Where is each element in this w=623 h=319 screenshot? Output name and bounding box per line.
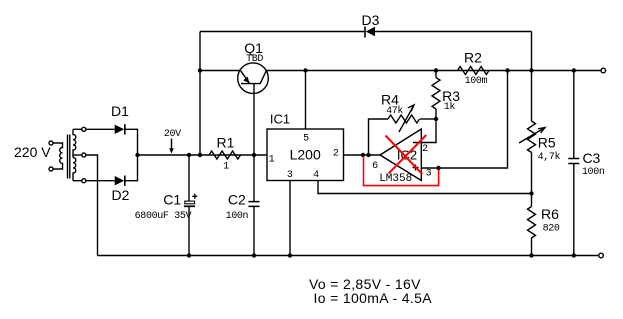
svg-text:820: 820 bbox=[543, 223, 560, 234]
svg-text:LM358: LM358 bbox=[379, 173, 412, 185]
transformer T1 core bbox=[68, 135, 70, 179]
svg-text:100n: 100n bbox=[226, 211, 249, 222]
svg-text:1: 1 bbox=[223, 162, 229, 173]
diode D1 bbox=[111, 103, 129, 135]
svg-text:C2: C2 bbox=[228, 192, 246, 208]
svg-text:1k: 1k bbox=[444, 101, 456, 113]
red annotation box around LM358 bbox=[364, 156, 439, 186]
svg-text:5: 5 bbox=[303, 134, 309, 145]
svg-text:C3: C3 bbox=[582, 150, 600, 166]
svg-text:R6: R6 bbox=[541, 206, 559, 222]
junction R3 top bbox=[434, 68, 438, 72]
wire secondary top lead bbox=[73, 128, 82, 130]
wire L200 pin 2 to op-amp output bbox=[344, 154, 381, 156]
resistor R6 bbox=[528, 194, 560, 256]
op-amp IC2 bbox=[372, 129, 432, 185]
junction R1 right / Q1 base / C2 bbox=[252, 153, 256, 157]
resistor R5 potentiometer bbox=[519, 71, 561, 194]
junction C3 top bbox=[572, 68, 576, 72]
junction C1 top bbox=[187, 153, 191, 157]
svg-text:4: 4 bbox=[313, 170, 319, 181]
capacitor C2 bbox=[226, 155, 260, 256]
junction opamp output red tap bbox=[361, 153, 365, 157]
junction pin 3 sense bbox=[436, 166, 440, 170]
wire L200 pin 5 up bbox=[305, 71, 307, 130]
output terminal negative bbox=[599, 253, 604, 258]
wire D1 anode bbox=[86, 128, 115, 130]
wire L200 pin 4 to R5/R6 junction bbox=[318, 181, 532, 194]
node 20V bbox=[164, 129, 181, 154]
wire IC2 pin 3 noninverting input to sense bbox=[421, 71, 507, 169]
junction C2 bottom bbox=[252, 253, 256, 257]
junction R3 R4 bbox=[434, 117, 438, 121]
svg-text:6800uF 35V: 6800uF 35V bbox=[135, 211, 192, 222]
junction D3 R5 top bbox=[529, 68, 533, 72]
resistor R3 bbox=[432, 71, 460, 120]
svg-text:2: 2 bbox=[333, 148, 339, 159]
capacitor C1 bbox=[135, 155, 198, 256]
wire secondary center tap lead bbox=[73, 154, 82, 156]
svg-text:D1: D1 bbox=[111, 103, 129, 119]
wire L200 pin 3 down bbox=[289, 181, 291, 256]
svg-text:4,7k: 4,7k bbox=[538, 151, 561, 163]
svg-text:R5: R5 bbox=[538, 134, 556, 150]
junction R2 right sense bbox=[505, 68, 509, 72]
junction pin 5 tap bbox=[303, 68, 307, 72]
svg-text:220 V: 220 V bbox=[14, 144, 51, 160]
svg-text:47k: 47k bbox=[386, 105, 403, 117]
svg-text:L200: L200 bbox=[290, 147, 321, 163]
regulator IC1 L200 bbox=[267, 111, 344, 181]
wire rectifier cathode join bbox=[126, 129, 138, 180]
junction R6 bottom bbox=[529, 253, 533, 257]
svg-text:IC1: IC1 bbox=[270, 111, 290, 126]
transformer T1 primary terminals bbox=[49, 141, 53, 145]
wire D3 cathode corner down to output rail bbox=[531, 32, 533, 71]
transformer T1 primary winding bbox=[53, 143, 63, 169]
svg-text:Io = 100mA - 4.5A: Io = 100mA - 4.5A bbox=[314, 290, 433, 306]
wire Q1 emitter row bbox=[200, 70, 240, 72]
transformer T1 secondary terminals bbox=[82, 127, 86, 131]
junction opamp output R4 tap bbox=[366, 153, 370, 157]
svg-text:1: 1 bbox=[269, 155, 275, 166]
svg-text:100m: 100m bbox=[465, 76, 488, 87]
svg-text:3: 3 bbox=[287, 170, 293, 181]
wire secondary bottom lead bbox=[73, 180, 82, 182]
junction rectifier output bbox=[135, 153, 139, 157]
resistor R1 bbox=[209, 134, 241, 172]
transistor Q1 bbox=[238, 40, 269, 155]
wire center tap down to ground rail bbox=[86, 155, 98, 256]
wire main input rail bbox=[138, 154, 268, 156]
wire top rail bbox=[200, 31, 532, 33]
svg-text:2: 2 bbox=[422, 144, 428, 155]
wire output rail bbox=[266, 70, 601, 72]
junction Q1 emitter rail tap bbox=[198, 153, 202, 157]
svg-text:R1: R1 bbox=[217, 134, 235, 150]
junction pin 3 ground bbox=[288, 253, 292, 257]
red cross-out over IC2 bbox=[386, 135, 427, 174]
diode D3 bbox=[362, 12, 380, 38]
svg-text:C1: C1 bbox=[163, 192, 181, 208]
capacitor C3 bbox=[568, 71, 605, 256]
svg-text:20V: 20V bbox=[164, 129, 181, 140]
wire IC2 pin 2 inverting input bbox=[413, 119, 436, 143]
noninverting input plus marker bbox=[413, 165, 419, 171]
junction Q1 emitter row bbox=[198, 68, 202, 72]
resistor R2 bbox=[458, 50, 490, 87]
svg-text:D3: D3 bbox=[362, 12, 380, 28]
wire bottom ground rail bbox=[98, 255, 599, 257]
svg-text:D2: D2 bbox=[112, 187, 130, 203]
transformer T1 secondary winding lower bbox=[73, 158, 76, 181]
wire left vertical input bbox=[199, 32, 201, 156]
output terminal positive bbox=[601, 68, 606, 73]
junction C3 bottom bbox=[572, 253, 576, 257]
svg-text:TBD: TBD bbox=[246, 54, 263, 65]
svg-text:6: 6 bbox=[372, 161, 378, 172]
transformer T1 secondary winding upper bbox=[73, 129, 76, 157]
resistor R4 trimmer bbox=[369, 91, 437, 155]
diode D2 bbox=[112, 176, 130, 204]
junction R5 R6 pin4 bbox=[529, 191, 533, 195]
svg-text:100n: 100n bbox=[582, 167, 605, 178]
svg-text:3: 3 bbox=[426, 168, 432, 179]
wire D2 anode bbox=[86, 180, 115, 182]
junction C1 bottom bbox=[187, 253, 191, 257]
svg-text:R2: R2 bbox=[464, 50, 482, 66]
